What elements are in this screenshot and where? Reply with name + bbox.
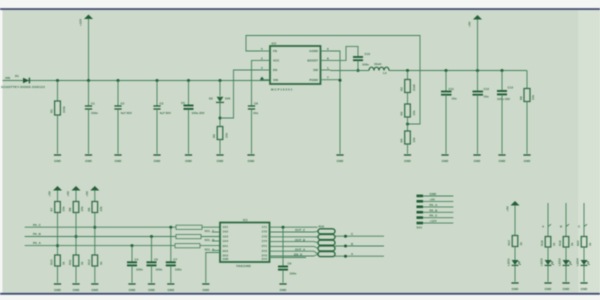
IC2 pin 6 stub AGND: [321, 47, 331, 51]
svg-text:100u 16V: 100u 16V: [497, 97, 510, 101]
wire column C down: [94, 213, 96, 256]
svg-text:C9: C9: [288, 262, 292, 266]
svg-text:100n: 100n: [175, 268, 182, 272]
resistor R12 lower C: [87, 255, 103, 266]
svg-text:PA_A: PA_A: [430, 203, 439, 207]
inductor L2: [369, 62, 389, 75]
zener diode D2: [209, 97, 231, 103]
svg-text:LED4: LED4: [576, 258, 580, 266]
ground under R6: [523, 155, 531, 163]
wire drop to C6: [151, 237, 153, 263]
svg-text:D2: D2: [209, 97, 213, 101]
wire C2 to ground: [117, 109, 119, 154]
wire LED4 to ground: [583, 266, 585, 282]
svg-text:1Y3: 1Y3: [262, 234, 268, 238]
IC2 pin 1 stub SW: [321, 66, 331, 70]
wire BOOST to C10: [331, 46, 359, 60]
svg-text:2A1: 2A1: [223, 244, 229, 248]
wire C6 to ground: [151, 265, 153, 282]
svg-text:10k: 10k: [412, 137, 416, 142]
wire rail to C1: [88, 81, 90, 107]
svg-text:EN_O: EN_O: [294, 252, 303, 256]
wire to ground column B: [75, 266, 77, 283]
svg-text:10k: 10k: [62, 206, 66, 211]
svg-text:C5: C5: [181, 101, 185, 105]
IC1 pin names left column: [223, 225, 229, 261]
resistor R1 column wire: [57, 81, 59, 102]
svg-text:R11: R11: [68, 259, 72, 265]
junction node +5V: [476, 69, 479, 72]
ground under AGND/PGND: [336, 155, 344, 163]
connector SV1 pin 3 pad: [417, 203, 454, 208]
svg-text:1k: 1k: [552, 242, 556, 246]
svg-text:D1: D1: [15, 74, 19, 78]
wire R18 to LED2: [547, 247, 549, 260]
svg-text:1k: 1k: [99, 261, 103, 265]
ground under C9: [279, 284, 287, 292]
wire LED1 to ground: [514, 266, 516, 282]
IC2 pin 4 stub VIN: [260, 76, 270, 80]
svg-text:1k: 1k: [80, 261, 84, 265]
IC2 pin 2 stub VCC: [260, 56, 270, 60]
svg-text:+5V: +5V: [85, 191, 89, 196]
wire rail to C5: [188, 81, 190, 106]
wire C10 to SW rail: [357, 60, 359, 70]
svg-text:+12V: +12V: [79, 19, 83, 26]
svg-text:100k: 100k: [62, 106, 66, 113]
svg-text:74HC240D: 74HC240D: [236, 264, 252, 268]
svg-text:C6: C6: [154, 257, 158, 261]
IC2 pin 7 stub PGND: [321, 76, 331, 80]
ground under R1: [54, 155, 62, 163]
capacitor C7: [166, 257, 182, 271]
svg-text:SCHOTTKY-DIODE-SOD123: SCHOTTKY-DIODE-SOD123: [1, 85, 45, 89]
resistor oval 4: [318, 246, 335, 251]
junction node FB tap: [406, 123, 409, 126]
junction node C13: [501, 69, 504, 72]
wire C1 to ground: [88, 109, 90, 154]
svg-text:4u7 50V: 4u7 50V: [160, 111, 171, 115]
wire rail end to R6: [526, 71, 528, 89]
wire C12 to ground: [477, 95, 479, 154]
wire rail to C11: [445, 71, 447, 92]
svg-text:PA_A: PA_A: [33, 241, 42, 245]
svg-text:100u 35V: 100u 35V: [192, 111, 205, 115]
svg-text:2Y4: 2Y4: [262, 257, 268, 261]
svg-text:LED3: LED3: [558, 258, 562, 266]
wire bus PA_C to IC1: [202, 226, 220, 228]
svg-text:5V6: 5V6: [225, 97, 231, 101]
supply arrow +5V pull column A: [48, 186, 63, 202]
svg-text:C12: C12: [484, 87, 490, 91]
junction node on rail near IC2 pin4: [261, 78, 264, 81]
wire to ground column C: [94, 266, 96, 283]
resistor R1: [50, 101, 67, 115]
IC2 pin 3 stub EN: [260, 66, 270, 70]
svg-text:100n: 100n: [136, 268, 143, 272]
ground under C1: [85, 155, 93, 163]
junction node column C on bus PA_C: [93, 226, 96, 229]
resistor R6: [519, 89, 535, 102]
resistor R18: [540, 237, 556, 248]
wire output net A: [335, 252, 384, 258]
connector SV1 pin 5 pad: [417, 214, 454, 219]
svg-text:1A2: 1A2: [223, 230, 229, 234]
buffer IC1 box: [220, 218, 270, 268]
wire R6 to ground: [526, 102, 528, 154]
resistor R15 inline: [175, 244, 215, 252]
svg-text:R4: R4: [400, 138, 404, 142]
wire IC1 output 4: [270, 238, 319, 243]
wire IC1 output 8 short stub: [270, 252, 307, 257]
resistor R14 inline: [176, 235, 215, 243]
wire IC1 output 2: [270, 228, 319, 232]
svg-text:R8: R8: [68, 207, 72, 211]
wire rail to C3: [156, 81, 158, 107]
wire R2 to R3: [407, 93, 409, 105]
svg-text:OUT_B: OUT_B: [295, 238, 306, 242]
svg-text:1Y1: 1Y1: [262, 225, 268, 229]
LED4: [576, 258, 590, 266]
resistor R13 inline: [176, 225, 215, 233]
wire SW pin to inductor: [331, 70, 370, 72]
svg-text:OUT_C: OUT_C: [295, 228, 306, 232]
capacitor C9: [278, 262, 297, 276]
svg-text:VIN: VIN: [273, 78, 278, 82]
junction node cap drop C4: [131, 244, 134, 247]
ground under LED1: [511, 283, 519, 291]
svg-text:+5V: +5V: [66, 191, 70, 196]
wire output rail: [389, 70, 527, 72]
connector SV1 pin 6 pad: [417, 219, 454, 224]
svg-text:1k: 1k: [588, 242, 592, 246]
junction node on rail at C5: [187, 79, 190, 82]
junction node column B on bus PA_B: [75, 235, 78, 238]
svg-text:R9: R9: [87, 207, 91, 211]
ground under C11: [441, 155, 449, 163]
wire LED column 2 top: [547, 203, 549, 237]
svg-text:10k: 10k: [412, 110, 416, 115]
svg-text:C8: C8: [254, 102, 258, 106]
ground under C8: [247, 155, 255, 163]
wire R5 to ground: [219, 140, 221, 154]
wire divider column top: [407, 71, 409, 80]
wire IC1 output 5: [270, 246, 319, 248]
svg-text:LED2: LED2: [540, 258, 544, 266]
connector SV1 pin 1 pad: [417, 192, 454, 197]
svg-text:1Y2: 1Y2: [262, 230, 268, 234]
wire C8 to ground: [251, 109, 253, 154]
wire PGND to ground column: [331, 80, 341, 154]
capacitor C1: [85, 102, 98, 115]
svg-text:BOOST: BOOST: [307, 59, 318, 63]
wire IC1 GND pin to ground: [206, 253, 220, 283]
svg-text:R5: R5: [212, 134, 216, 138]
ground under C7: [167, 284, 175, 292]
svg-text:PA_C: PA_C: [430, 214, 439, 218]
svg-text:PA_B: PA_B: [430, 208, 439, 212]
svg-text:PA_C: PA_C: [33, 223, 42, 227]
svg-text:10k: 10k: [99, 206, 103, 211]
svg-text:OUT_A: OUT_A: [295, 247, 306, 251]
capacitor C4: [127, 257, 143, 271]
svg-text:SV1: SV1: [417, 226, 423, 230]
capacitor C8: [248, 102, 258, 115]
IC1 pin stub left 6: [212, 249, 220, 251]
wire rail to C13: [501, 71, 503, 92]
junction node cap drop C6: [150, 235, 153, 238]
wire R1 to ground: [57, 115, 59, 154]
supply arrow +5V pull column B: [66, 186, 81, 202]
wire C9 column: [282, 227, 284, 266]
junction node on rail at R1: [56, 79, 59, 82]
svg-text:C4: C4: [135, 257, 139, 261]
svg-text:C3: C3: [160, 102, 164, 106]
capacitor C12: [473, 87, 490, 99]
IC2 pin 5 stub FB: [260, 47, 270, 51]
wire C13 to ground: [501, 94, 503, 153]
svg-text:2Y2: 2Y2: [262, 249, 268, 253]
svg-text:R20: R20: [576, 240, 580, 246]
wire IC1 output 6: [270, 247, 319, 254]
wire LED2 to ground: [547, 266, 549, 282]
resistor R17: [507, 236, 523, 247]
svg-text:R3: R3: [400, 111, 404, 115]
ground under C5: [185, 155, 193, 163]
bottom navy border line: [0, 293, 600, 295]
junction node SW/C10: [357, 69, 360, 72]
resistor R5: [212, 127, 229, 140]
junction node EN tap: [219, 117, 222, 120]
wire to ground column A: [57, 266, 59, 283]
svg-text:C2: C2: [121, 102, 125, 106]
wire column B down: [75, 213, 77, 256]
svg-text:MCP16301: MCP16301: [271, 88, 293, 92]
ground under C12: [473, 155, 481, 163]
wire C9 to ground: [282, 270, 284, 283]
ground under IC1: [202, 284, 210, 292]
wire IC1 output 1: [270, 226, 318, 228]
LED3: [558, 258, 572, 266]
supply arrow +5V LED column 1: [506, 201, 520, 236]
wire R17 to LED1: [514, 247, 516, 261]
wire drop to C7: [170, 227, 172, 262]
svg-text:C10: C10: [365, 52, 371, 56]
svg-text:IC1: IC1: [243, 218, 248, 222]
wire LED column 3 top: [565, 203, 567, 237]
ground under divider: [404, 155, 412, 163]
svg-text:100n: 100n: [362, 63, 369, 67]
svg-text:SW: SW: [313, 68, 318, 72]
wire R20 to LED4: [583, 247, 585, 260]
svg-text:R6: R6: [519, 96, 523, 100]
wire column A down: [57, 213, 59, 256]
wire C11 to ground: [445, 95, 447, 154]
svg-text:1A3: 1A3: [223, 234, 229, 238]
svg-text:10u: 10u: [452, 97, 457, 101]
resistor R20: [576, 237, 592, 248]
wire LED column 4 top: [583, 203, 585, 237]
junction node on rail at D2: [219, 79, 222, 82]
svg-text:R17: R17: [507, 240, 511, 246]
op-amp/regulator IC2 box: [270, 42, 321, 92]
resistor R3: [400, 104, 417, 117]
IC1 pin stub left 2: [212, 231, 220, 233]
resistor oval 1: [318, 229, 335, 234]
IC1 pin stub left 4: [212, 240, 220, 242]
ground column B: [72, 284, 80, 292]
svg-text:SCL_B: SCL_B: [205, 238, 216, 242]
capacitor C2: [114, 102, 131, 115]
svg-text:1OE: 1OE: [223, 257, 229, 261]
polarized capacitor C13: [497, 86, 513, 101]
svg-text:AGND: AGND: [309, 49, 319, 53]
junction node on rail at C3: [156, 79, 159, 82]
svg-text:R7: R7: [50, 207, 54, 211]
IC2 pin 8 stub BOOST: [321, 56, 331, 60]
ground column C: [91, 284, 99, 292]
junction node AGND/PGND: [339, 79, 342, 82]
resistor R4: [400, 131, 417, 144]
wire bus PA_A to IC1: [200, 245, 220, 247]
lighter right margin band: [578, 10, 600, 293]
wire drop to C4: [131, 246, 133, 263]
svg-text:C13: C13: [508, 86, 514, 90]
LED1: [507, 258, 521, 266]
wire output net B: [335, 242, 384, 248]
svg-text:10u: 10u: [253, 111, 258, 115]
wire zener to node: [219, 102, 221, 126]
svg-text:R10: R10: [50, 259, 54, 265]
svg-text:R16: R16: [319, 224, 325, 228]
svg-text:1k: 1k: [62, 261, 66, 265]
wire EN branch to IC2 pin EN: [220, 70, 260, 118]
svg-text:1k: 1k: [519, 242, 523, 246]
svg-text:31k6: 31k6: [412, 84, 416, 91]
svg-text:1k: 1k: [570, 242, 574, 246]
wire rail to zener D2: [219, 81, 221, 97]
svg-text:+5V: +5V: [48, 191, 52, 196]
resistor oval 5: [318, 252, 335, 257]
svg-text:1A1: 1A1: [223, 225, 229, 229]
svg-text:R2: R2: [400, 87, 404, 91]
svg-text:EN: EN: [273, 68, 277, 72]
svg-text:+5V: +5V: [506, 206, 510, 211]
svg-text:10k: 10k: [225, 133, 229, 138]
ground under C13: [498, 155, 506, 163]
resistor R8 pull-up: [68, 202, 84, 213]
ground under C3: [153, 155, 161, 163]
svg-text:C7: C7: [173, 257, 177, 261]
resistor R10 lower A: [50, 255, 66, 266]
svg-text:GND: GND: [430, 192, 438, 196]
top navy border line: [0, 8, 600, 10]
connector SV1 pin 2 pad: [417, 197, 454, 202]
wire bus PA_C: [25, 226, 176, 228]
svg-text:+5V: +5V: [430, 197, 435, 201]
ground under R5: [216, 155, 224, 163]
wire VCC pin to C8 column: [252, 60, 261, 106]
svg-text:10k: 10k: [80, 206, 84, 211]
net label stub A on LED column 2: [542, 224, 551, 228]
svg-text:LED1: LED1: [507, 258, 511, 266]
LED2: [540, 258, 554, 266]
svg-text:C1: C1: [91, 102, 95, 106]
supply arrow +5V output: [468, 15, 483, 92]
wire bus PA_B: [25, 236, 176, 238]
supply arrow +12V: [79, 15, 94, 81]
svg-text:R19: R19: [558, 240, 562, 246]
wire C3 to ground: [156, 109, 158, 154]
resistor R11 lower B: [68, 255, 84, 266]
svg-text:1A4: 1A4: [223, 239, 229, 243]
svg-text:1Y4: 1Y4: [262, 239, 268, 243]
svg-text:100n: 100n: [91, 111, 98, 115]
polarized capacitor C5: [181, 101, 205, 115]
wire AGND down to PGND: [331, 51, 341, 81]
junction node column A on bus PA_A: [56, 244, 59, 247]
svg-text:100n: 100n: [290, 272, 297, 276]
diode D1: [1, 74, 45, 89]
junction node on rail at C2: [117, 79, 120, 82]
wire IC1 output 7: [270, 254, 319, 256]
resistor R2: [400, 80, 417, 93]
svg-text:PA_B: PA_B: [33, 232, 42, 236]
svg-text:10u: 10u: [484, 95, 489, 99]
wire: VIN input rail: [3, 80, 271, 82]
svg-text:+12V: +12V: [430, 219, 437, 223]
wire C4 to ground: [131, 265, 133, 282]
svg-text:VCC: VCC: [273, 59, 280, 63]
ground under C2: [114, 155, 122, 163]
svg-text:10uH: 10uH: [374, 62, 381, 66]
wire LED3 to ground: [565, 266, 567, 282]
capacitor C3: [153, 102, 170, 115]
wire bus PA_B to IC1: [201, 236, 220, 238]
wire R3 to R4: [407, 117, 409, 131]
IC1 pin names right column: [262, 225, 268, 261]
wire R4 to ground: [407, 144, 409, 154]
svg-text:100n: 100n: [156, 268, 163, 272]
resistor R19: [558, 237, 574, 248]
resistor oval 2: [318, 235, 335, 240]
svg-text:4u7 50V: 4u7 50V: [121, 111, 132, 115]
svg-text:IC2: IC2: [272, 42, 277, 46]
resistor oval 3: [318, 240, 335, 245]
wire output net C: [335, 232, 384, 238]
resistor R9 pull-up: [87, 202, 103, 213]
svg-text:2Y1: 2Y1: [262, 244, 268, 248]
ground under C4: [128, 284, 136, 292]
junction node cap drop C7: [169, 226, 172, 229]
capacitor C6: [147, 257, 163, 271]
net label stub B on LED column 3: [560, 224, 569, 228]
wire C5 to ground: [188, 109, 190, 154]
ground under C6: [148, 284, 156, 292]
svg-text:VIN: VIN: [5, 76, 10, 80]
net label stub C on LED column 4: [578, 224, 587, 228]
wire C7 to ground: [170, 265, 172, 282]
wire R19 to LED3: [565, 247, 567, 260]
wire rail to C2: [117, 81, 119, 107]
ground under LED3: [562, 283, 570, 291]
svg-text:L2: L2: [383, 71, 387, 75]
resistor R7 pull-up: [50, 202, 66, 213]
svg-text:R1: R1: [50, 109, 54, 113]
capacitor C10: [353, 52, 370, 67]
supply arrow +5V pull column C: [85, 186, 100, 202]
junction node divider top: [406, 69, 409, 72]
